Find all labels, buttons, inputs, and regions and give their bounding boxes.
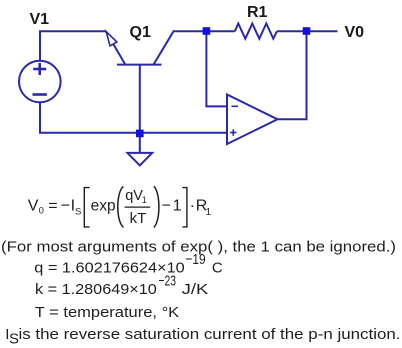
- wire ground stem: [139, 133, 141, 153]
- left square bracket: [84, 188, 89, 227]
- svg-text:1: 1: [173, 198, 182, 215]
- wire V1 bottom: [39, 103, 41, 133]
- junction left of R1: [203, 27, 211, 35]
- junction ground node: [136, 130, 144, 138]
- svg-text:0: 0: [39, 206, 44, 217]
- ground symbol: [127, 153, 152, 166]
- svg-text:S: S: [75, 207, 81, 218]
- svg-text:exp: exp: [91, 197, 116, 214]
- svg-text:=: =: [48, 198, 57, 215]
- svg-text:·: ·: [190, 198, 195, 215]
- op-amp U1 triangle: [227, 95, 278, 145]
- svg-text:V0: V0: [345, 24, 365, 41]
- svg-text:1: 1: [142, 195, 147, 205]
- V1 plus sign: [33, 63, 46, 75]
- svg-text:−23: −23: [158, 273, 176, 290]
- right square bracket: [182, 188, 187, 227]
- voltage source V1: [19, 61, 61, 103]
- svg-text:k = 1.280649×10: k = 1.280649×10: [35, 281, 157, 298]
- transistor Q1 emitter: [106, 31, 126, 64]
- svg-text:kT: kT: [130, 211, 147, 227]
- svg-text:V: V: [28, 198, 39, 215]
- svg-text:J/K: J/K: [182, 281, 209, 298]
- resistor R1 zigzag: [235, 24, 277, 39]
- wire base lead Q1: [139, 65, 141, 133]
- svg-text:S: S: [9, 331, 19, 348]
- svg-text:−: −: [61, 198, 70, 215]
- left paren: [118, 186, 124, 227]
- svg-text:−19: −19: [185, 251, 205, 268]
- wire op-amp output to feedback: [278, 33, 307, 119]
- transistor Q1 emitter arrowhead: [106, 32, 117, 46]
- op-amp minus input mark: [232, 105, 239, 107]
- svg-text:Q1: Q1: [130, 24, 151, 41]
- formula V0 = -IS[exp(qV1/kT)-1]*R1: [28, 186, 212, 227]
- svg-text:−: −: [162, 198, 171, 215]
- svg-text:C: C: [212, 259, 223, 276]
- transistor Q1 base bar: [117, 64, 162, 66]
- fraction bar: [125, 206, 151, 208]
- wire bottom rail: [39, 132, 227, 134]
- op-amp plus input mark: [230, 129, 236, 136]
- wire inverting input: [206, 33, 227, 106]
- svg-text:qV: qV: [125, 188, 143, 204]
- wire resistor right to V0: [277, 30, 338, 32]
- svg-text:R1: R1: [247, 4, 268, 21]
- svg-text:1: 1: [206, 207, 212, 218]
- svg-text:V1: V1: [30, 11, 50, 28]
- right paren: [154, 186, 159, 227]
- V1 minus sign: [33, 93, 47, 96]
- svg-text:is the reverse saturation curr: is the reverse saturation current of the…: [19, 326, 401, 343]
- wire V1 top to emitter: [40, 31, 106, 60]
- junction right of R1: [303, 27, 311, 35]
- wire collector to top rail: [154, 31, 235, 64]
- svg-text:T = temperature, °K: T = temperature, °K: [35, 304, 179, 321]
